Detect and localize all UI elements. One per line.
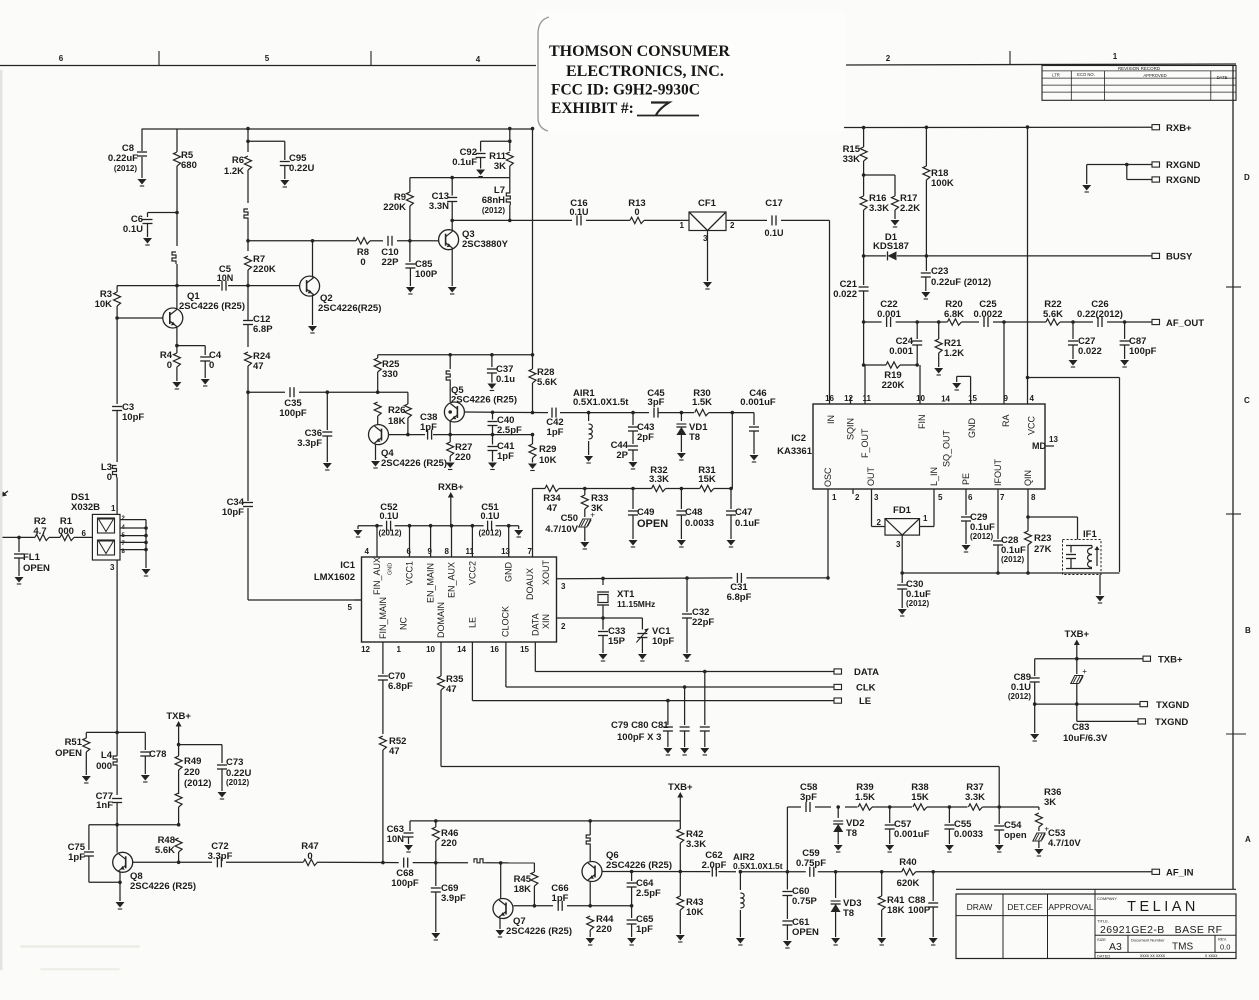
label R30 — [692, 388, 712, 408]
IC U1 LMX1602 body — [362, 557, 557, 642]
capacitor C54 — [994, 807, 1004, 852]
power arrow TXB+ middle — [668, 782, 693, 821]
svg-text:10: 10 — [916, 394, 925, 403]
wire TXB+ rail bottom — [410, 819, 680, 823]
zone number 1 — [1113, 52, 1118, 61]
terminal CLK — [834, 684, 842, 689]
capacitor C57 — [885, 807, 895, 852]
resistor R7 — [245, 241, 252, 286]
svg-text:0.1uF: 0.1uF — [452, 157, 477, 168]
label R52 — [389, 736, 406, 757]
capacitor C24 — [912, 322, 922, 365]
variable capacitor VC1 — [636, 618, 648, 661]
label IC2 KA3361 — [777, 433, 813, 457]
resistor R20 — [947, 319, 961, 325]
ground left of bypass rail — [354, 526, 363, 537]
label R9 — [383, 192, 406, 213]
wire Q7 base line — [514, 904, 634, 908]
label C8 value — [108, 143, 138, 173]
right border zone ticks — [1226, 287, 1246, 734]
svg-text:0: 0 — [634, 207, 639, 217]
label C25 — [973, 299, 1002, 320]
label R37 — [965, 782, 985, 803]
label C57 — [894, 819, 930, 840]
capacitor C63 — [404, 821, 414, 852]
label R5 — [181, 150, 197, 171]
revision record table — [1042, 66, 1236, 101]
svg-text:47: 47 — [446, 684, 457, 695]
crystal XT1 — [597, 578, 609, 618]
capacitor C92 — [476, 139, 512, 176]
wire Q2 collector line with R8 C10 — [246, 239, 432, 243]
FD1 pin numbers — [877, 514, 928, 549]
svg-text:0.1uF: 0.1uF — [735, 518, 760, 529]
wire C17 to IC2 IN pin — [829, 220, 831, 404]
resistor R24 — [245, 352, 252, 392]
capacitor C22 — [887, 317, 891, 327]
resistor R28 — [529, 355, 536, 413]
svg-text:DET.CEF: DET.CEF — [1007, 902, 1042, 912]
inductor L3 — [113, 466, 118, 515]
svg-text:B: B — [1245, 626, 1251, 635]
IC1 bypass rail pin risers — [375, 524, 510, 557]
svg-text:1: 1 — [111, 504, 116, 513]
label VD3 — [843, 898, 861, 919]
label C44 — [611, 440, 629, 461]
label C87 — [1129, 336, 1157, 357]
sheet top border line (left segment) — [0, 65, 537, 67]
svg-text:IN: IN — [826, 415, 836, 424]
svg-text:4.7: 4.7 — [33, 526, 46, 537]
wire DATA line — [535, 642, 834, 673]
wire AF_OUT line — [862, 320, 1152, 324]
capacitor C87 — [1120, 322, 1130, 367]
electrolytic capacitor C50 — [579, 511, 596, 550]
capacitor C31 — [737, 573, 741, 583]
svg-text:AF_IN: AF_IN — [1166, 868, 1194, 879]
svg-text:3.3pF: 3.3pF — [297, 438, 322, 449]
svg-text:220: 220 — [596, 924, 612, 935]
svg-text:11: 11 — [863, 394, 872, 403]
svg-text:2SC4226 (R25): 2SC4226 (R25) — [451, 395, 517, 406]
svg-text:10: 10 — [426, 645, 435, 654]
ferrite bead above Q5 — [446, 353, 452, 402]
power arrow TXB+ left — [166, 711, 191, 756]
resistor R16 — [860, 196, 867, 256]
svg-text:TXB+: TXB+ — [668, 782, 693, 793]
svg-text:0.22U: 0.22U — [289, 163, 314, 174]
svg-text:7: 7 — [528, 547, 533, 556]
svg-text:10N: 10N — [387, 834, 405, 845]
capacitor C30 — [897, 573, 907, 616]
wire LE line — [472, 642, 834, 702]
svg-text:0.22uF (2012): 0.22uF (2012) — [931, 277, 991, 288]
wire VCO tuning line C58-R37 — [787, 805, 1039, 809]
capacitor C85 — [405, 239, 415, 294]
svg-text:T8: T8 — [846, 828, 857, 839]
svg-text:0.001uF: 0.001uF — [740, 397, 776, 408]
resistor R27 — [446, 435, 455, 470]
label R27 — [455, 442, 472, 463]
svg-text:1pF: 1pF — [552, 893, 569, 904]
label C22 — [877, 299, 901, 320]
diode D1 — [888, 251, 897, 260]
resistor R2 — [35, 534, 49, 540]
label L4 — [96, 750, 113, 772]
svg-text:1.2K: 1.2K — [944, 348, 964, 359]
varactor diode VD1 — [676, 411, 686, 460]
ground below C89 — [1030, 704, 1039, 741]
resistor R15 — [860, 126, 867, 196]
resistor R1 — [60, 534, 74, 540]
label C27 — [1078, 336, 1102, 357]
label C59 — [796, 848, 826, 869]
svg-text:0.0: 0.0 — [1220, 943, 1230, 952]
label C42 — [546, 417, 563, 438]
wire Q4 base / C38 line — [389, 433, 533, 437]
svg-text:TMS: TMS — [1172, 942, 1193, 953]
svg-text:TXB+: TXB+ — [1158, 655, 1183, 666]
svg-text:2: 2 — [730, 221, 735, 230]
svg-text:18K: 18K — [887, 905, 905, 916]
svg-text:1: 1 — [397, 645, 402, 654]
svg-text:47: 47 — [389, 746, 400, 757]
label AF_OUT — [1166, 318, 1204, 329]
svg-text:0.75P: 0.75P — [792, 896, 817, 907]
svg-text:C79 C80 C81: C79 C80 C81 — [611, 720, 669, 731]
svg-text:220: 220 — [455, 452, 471, 463]
wire IC1 bypass rail — [358, 525, 519, 527]
IC2 bottom pin numbers — [832, 493, 1036, 502]
air coil AIR1 — [584, 411, 649, 463]
capacitor C16 — [577, 215, 581, 225]
svg-text:33K: 33K — [843, 154, 861, 165]
label C77 — [96, 791, 114, 811]
wire QIN to IF1 — [1028, 517, 1078, 540]
svg-text:6.8pF: 6.8pF — [727, 592, 752, 603]
label C50 — [545, 513, 578, 535]
svg-text:SQ_OUT: SQ_OUT — [942, 429, 952, 467]
capacitor C21 — [859, 256, 869, 322]
label R46 — [441, 828, 458, 849]
svg-text:3: 3 — [110, 563, 115, 572]
capacitor C28 — [993, 489, 1003, 573]
label C52 — [378, 502, 401, 538]
label D1 — [873, 232, 909, 252]
svg-text:100pF X 3: 100pF X 3 — [617, 732, 661, 743]
svg-text:IFOUT: IFOUT — [993, 459, 1003, 486]
svg-text:IC1: IC1 — [340, 560, 356, 571]
svg-text:1pF: 1pF — [497, 451, 514, 462]
svg-text:0.0022: 0.0022 — [973, 309, 1002, 320]
svg-text:CF1: CF1 — [698, 198, 717, 209]
capacitor C17 — [772, 215, 776, 225]
label Q8 — [130, 871, 196, 892]
label C16 — [569, 198, 588, 217]
capacitor C25 — [984, 317, 988, 327]
label R13 — [628, 198, 645, 217]
svg-text:0.022: 0.022 — [1078, 346, 1102, 357]
label C29 — [970, 512, 995, 541]
label C40 — [497, 415, 522, 436]
label C51 — [478, 502, 501, 538]
svg-text:11.15MHz: 11.15MHz — [617, 599, 655, 609]
svg-text:100pF: 100pF — [391, 878, 419, 889]
label C62 — [702, 850, 727, 871]
svg-text:4: 4 — [365, 547, 370, 556]
svg-text:LTR: LTR — [1052, 72, 1060, 77]
svg-text:2SC4226 (R25): 2SC4226 (R25) — [130, 881, 196, 892]
svg-text:DRAW: DRAW — [967, 902, 993, 912]
label R17 — [900, 193, 920, 214]
label TXGND lower — [1155, 717, 1188, 728]
svg-text:FIN_AUX: FIN_AUX — [372, 557, 382, 595]
label C38 — [420, 412, 437, 433]
terminal BUSY — [1152, 253, 1160, 258]
svg-text:KDS187: KDS187 — [873, 241, 909, 252]
transistor Q2 — [300, 239, 320, 333]
IC2 MD pin13 stub — [1045, 435, 1058, 446]
label Q2 — [318, 293, 381, 314]
svg-text:(2012): (2012) — [482, 206, 505, 215]
IC1 pin names — [372, 557, 551, 639]
svg-text:D: D — [1244, 173, 1250, 182]
wire junction to R51 C78 — [86, 731, 145, 735]
capacitor C34 — [243, 503, 253, 507]
label R43 — [686, 897, 704, 918]
svg-text:OSC: OSC — [823, 467, 833, 487]
svg-text:220K: 220K — [253, 264, 276, 275]
svg-text:DOMAIN: DOMAIN — [436, 602, 446, 638]
label C73 — [226, 757, 251, 787]
svg-text:APPROVED: APPROVED — [1143, 73, 1166, 78]
svg-text:1.2K: 1.2K — [224, 166, 244, 177]
label R41 — [887, 895, 905, 916]
transistor Q8 — [113, 825, 133, 909]
svg-text:5: 5 — [348, 603, 353, 612]
resistor R31 — [700, 485, 714, 491]
svg-text:EN_AUX: EN_AUX — [447, 562, 457, 598]
transistor Q4 — [369, 425, 389, 468]
label R22 — [1043, 299, 1063, 320]
wire Q5 output line to AIR1 — [448, 410, 588, 414]
label R21 — [944, 338, 964, 359]
svg-text:C48: C48 — [685, 507, 702, 518]
svg-text:BUSY: BUSY — [1166, 252, 1193, 263]
resistor R38 — [913, 804, 927, 810]
svg-text:16: 16 — [490, 645, 499, 654]
capacitor C12 — [243, 286, 253, 347]
svg-text:FD1: FD1 — [893, 505, 912, 516]
svg-text:11: 11 — [466, 547, 475, 556]
wire C34 feed to IC1 — [248, 392, 362, 600]
resistor R42 — [677, 821, 684, 872]
label C36 — [297, 428, 322, 449]
svg-text:18K: 18K — [388, 416, 406, 427]
svg-text:13: 13 — [1049, 435, 1058, 444]
resistor R4 — [172, 344, 181, 389]
wire OSC pin to oscillator line — [827, 489, 829, 578]
wire CLK line — [506, 642, 834, 689]
wire OUT pin to FD1 — [872, 489, 886, 527]
svg-text:TXGND: TXGND — [1156, 700, 1189, 711]
label C83 — [1063, 722, 1108, 744]
label C41 — [497, 441, 515, 462]
wire Q8 output line — [133, 861, 535, 865]
svg-text:2: 2 — [886, 54, 891, 63]
label R26 — [388, 405, 406, 427]
svg-text:22P: 22P — [382, 257, 400, 268]
svg-text:OPEN: OPEN — [637, 518, 668, 530]
svg-text:5.6K: 5.6K — [155, 845, 175, 856]
capacitor C4 — [177, 346, 210, 386]
label R19 — [882, 370, 905, 391]
label CLK — [856, 683, 876, 694]
capacitor C73 — [217, 745, 227, 799]
resistor R47 — [303, 859, 317, 865]
label R45 — [514, 874, 532, 895]
resistor R9 — [406, 178, 413, 241]
label C64 — [636, 878, 661, 899]
ferrite bead on TX line — [474, 859, 486, 863]
label C89 — [1008, 672, 1031, 701]
zone letter D — [1244, 173, 1250, 182]
svg-text:6: 6 — [968, 493, 973, 502]
ground for RXGND — [1082, 165, 1091, 193]
svg-text:8: 8 — [1031, 493, 1036, 502]
svg-text:4: 4 — [476, 55, 481, 64]
svg-text:12: 12 — [844, 394, 853, 403]
capacitor C70 on FIN_MAIN — [378, 642, 388, 734]
svg-text:1pF: 1pF — [547, 427, 564, 438]
transistor Q3 — [432, 220, 459, 294]
label RXB+ terminal — [1166, 123, 1192, 134]
label C78 — [149, 749, 166, 760]
label C53 — [1048, 828, 1081, 849]
svg-text:R26: R26 — [388, 405, 405, 416]
svg-text:6.8P: 6.8P — [253, 324, 273, 335]
capacitor C42 — [552, 408, 556, 418]
svg-text:0: 0 — [360, 257, 365, 268]
label AF_IN — [1166, 868, 1194, 879]
svg-text:22pF: 22pF — [692, 617, 714, 628]
svg-text:(2012): (2012) — [478, 529, 501, 538]
label C54 — [1004, 820, 1027, 841]
label DATA — [854, 667, 879, 678]
resistor R26 — [404, 392, 411, 434]
svg-text:1pF: 1pF — [420, 422, 437, 433]
capacitor C48 — [676, 489, 686, 548]
IC U2 KA3361 body — [813, 404, 1045, 489]
svg-text:OPEN: OPEN — [23, 563, 50, 574]
svg-text:T8: T8 — [689, 432, 700, 443]
label AIR1 — [573, 388, 629, 408]
label C72 — [208, 841, 233, 862]
svg-text:OPEN: OPEN — [55, 748, 82, 759]
ceramic discriminator FD1 — [885, 519, 920, 573]
wire RA pin riser — [1003, 322, 1005, 404]
svg-text:2pF: 2pF — [637, 432, 654, 443]
svg-text:OPEN: OPEN — [792, 927, 819, 938]
transistor Q1 — [115, 286, 183, 346]
resistor R29 — [528, 433, 537, 471]
label VD2 — [846, 818, 864, 839]
label RXGND lower — [1166, 175, 1200, 186]
resistor R6 — [245, 127, 252, 203]
svg-text:10K: 10K — [95, 299, 113, 310]
IC2 GND pin15 ground hook — [952, 376, 970, 404]
svg-text:2: 2 — [877, 518, 882, 527]
svg-text:CLOCK: CLOCK — [501, 606, 511, 637]
wire antenna input line — [0, 536, 92, 540]
resistor R35 — [438, 676, 445, 690]
label CF1 — [698, 198, 717, 209]
svg-text:TXB+: TXB+ — [1065, 629, 1090, 640]
capacitor C78 — [140, 732, 150, 782]
svg-text:0.22(2012): 0.22(2012) — [1077, 309, 1123, 320]
svg-text:10pF: 10pF — [122, 412, 144, 423]
svg-text:(2012): (2012) — [184, 778, 211, 789]
label R49 — [184, 756, 211, 789]
svg-text:OUT: OUT — [866, 467, 876, 487]
svg-text:18K: 18K — [514, 884, 532, 895]
svg-text:SIZE: SIZE — [1097, 937, 1106, 942]
svg-text:GND: GND — [504, 562, 514, 583]
label C60 — [792, 886, 817, 907]
svg-text:220K: 220K — [383, 202, 406, 213]
svg-text:ELECTRONICS, INC.: ELECTRONICS, INC. — [566, 63, 724, 80]
resistor R43 — [676, 870, 685, 942]
svg-text:GND: GND — [967, 418, 977, 439]
label C33 — [608, 626, 626, 647]
svg-text:2SC4226 (R25): 2SC4226 (R25) — [506, 926, 572, 937]
svg-text:CLK: CLK — [856, 683, 876, 694]
filter FL1 — [14, 537, 24, 584]
ferrite bead on R5 branch — [172, 252, 177, 286]
zone number 5 — [265, 54, 270, 63]
wire AF_IN line — [719, 870, 1153, 874]
label C79 C80 C81 — [611, 720, 669, 743]
off-page arrow left edge — [0, 491, 8, 497]
svg-text:0.5X1.0X1.5t: 0.5X1.0X1.5t — [573, 397, 629, 408]
label C66 — [551, 883, 568, 904]
svg-text:1pF: 1pF — [68, 852, 85, 863]
transistor Q6 — [582, 862, 602, 906]
svg-text:3: 3 — [896, 540, 901, 549]
zone number 2 — [886, 54, 891, 63]
svg-text:10N: 10N — [217, 273, 234, 283]
resistor R30 — [695, 409, 754, 415]
label C17 — [764, 198, 783, 238]
svg-text:C17: C17 — [765, 198, 782, 209]
svg-text:1pF: 1pF — [636, 924, 653, 935]
svg-text:C: C — [1244, 396, 1250, 405]
ceramic filter CF1 — [689, 212, 726, 289]
svg-text:LE: LE — [468, 617, 478, 628]
label C68 — [391, 868, 419, 889]
label C12 — [253, 314, 273, 335]
capacitor C58 — [806, 802, 810, 812]
drawing title block — [956, 889, 1236, 958]
resistor R34 — [545, 485, 559, 491]
svg-text:6: 6 — [82, 529, 87, 538]
label C3 — [122, 402, 144, 423]
capacitor C40 — [488, 411, 498, 435]
svg-text:EN_MAIN: EN_MAIN — [426, 563, 436, 603]
capacitor C66 — [558, 901, 562, 911]
svg-text:TELIAN: TELIAN — [1127, 899, 1199, 915]
svg-text:000: 000 — [58, 526, 74, 537]
